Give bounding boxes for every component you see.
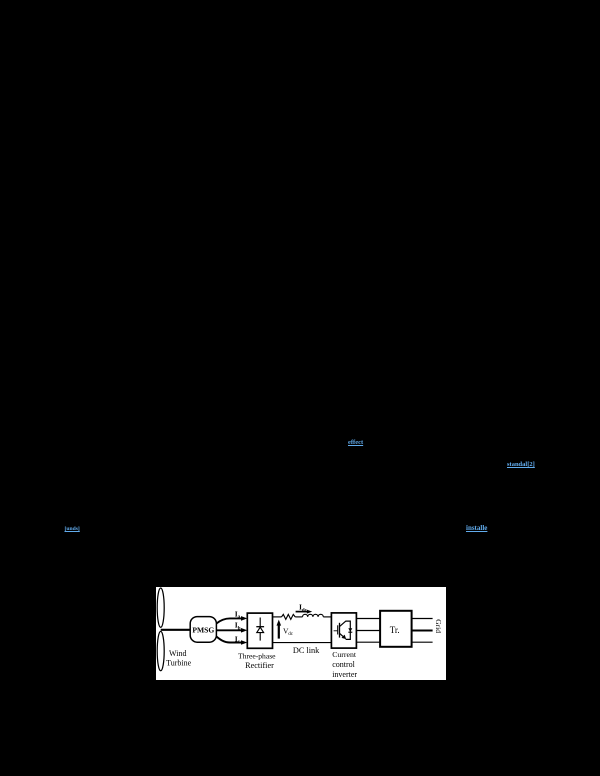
IGBT freewheel diode bar bbox=[348, 631, 352, 633]
svg-text:Turbine: Turbine bbox=[166, 658, 191, 667]
svg-text:control: control bbox=[332, 659, 355, 668]
IGBT body bar bbox=[339, 622, 341, 637]
dc bottom wire bbox=[273, 641, 332, 643]
IGBT emitter arrowhead bbox=[342, 634, 347, 639]
svg-text:a: a bbox=[238, 614, 241, 620]
wire PMSG to rectifier phase a bbox=[216, 618, 241, 623]
wind turbine blade upper bbox=[157, 588, 164, 627]
svg-text:PMSG: PMSG bbox=[192, 625, 214, 634]
arrow phase c bbox=[241, 640, 247, 645]
svg-text:DC link: DC link bbox=[293, 646, 320, 655]
diode vertical lead bbox=[259, 617, 261, 640]
svg-text:dc: dc bbox=[302, 607, 308, 613]
white figure background bbox=[156, 587, 446, 680]
arrowheads bbox=[241, 609, 312, 644]
transformer Tr box bbox=[380, 610, 412, 646]
IGBT gate bar bbox=[337, 625, 339, 634]
grid wire 1 bbox=[412, 617, 433, 619]
svg-text:dc: dc bbox=[288, 632, 294, 637]
svg-text:Tr.: Tr. bbox=[390, 624, 400, 634]
rectifier box bbox=[247, 613, 272, 648]
inverter box bbox=[331, 612, 356, 647]
inductor zigzag bbox=[282, 614, 296, 619]
Vdc arrow bbox=[278, 624, 280, 638]
link text 2 bbox=[507, 461, 535, 468]
svg-text:Rectifier: Rectifier bbox=[245, 661, 274, 670]
IGBT emitter stroke bbox=[340, 633, 345, 637]
arrow Idc head bbox=[307, 609, 312, 613]
wire bbox=[295, 615, 302, 617]
arrow phase a bbox=[241, 616, 247, 621]
IGBT collector stroke bbox=[340, 621, 351, 639]
diode triangle bbox=[257, 627, 264, 632]
svg-text:Three-phase: Three-phase bbox=[238, 651, 276, 660]
wire PMSG to rectifier phase b bbox=[216, 629, 241, 631]
inductor coils bbox=[303, 614, 324, 617]
inverter output wire 2 bbox=[356, 629, 380, 631]
arrow Vdc head bbox=[277, 619, 282, 625]
inverter output wire 1 bbox=[356, 617, 380, 619]
generator PMSG box bbox=[190, 616, 216, 642]
svg-text:Wind: Wind bbox=[169, 648, 186, 657]
dc top wire right bbox=[323, 615, 331, 617]
inverter output wire 3 bbox=[356, 641, 380, 643]
svg-text:b: b bbox=[238, 625, 241, 631]
svg-text:inverter: inverter bbox=[332, 669, 357, 678]
svg-text:Current: Current bbox=[332, 649, 357, 658]
wire PMSG to rectifier phase c bbox=[216, 636, 241, 642]
svg-text:Grid: Grid bbox=[434, 619, 443, 633]
link text 1 bbox=[348, 439, 363, 446]
arrow phase b bbox=[241, 628, 247, 633]
IGBT freewheel diode triangle bbox=[348, 628, 352, 632]
dc top wire bbox=[273, 615, 282, 617]
link text 4 bbox=[65, 526, 80, 532]
diode cathode bar bbox=[256, 625, 264, 627]
Idc arrow line bbox=[296, 610, 308, 612]
IGBT gate lead bbox=[334, 629, 338, 631]
wind turbine blade lower bbox=[157, 631, 164, 670]
link text 3 bbox=[466, 524, 487, 532]
grid wire 2 bbox=[412, 629, 433, 631]
figure: PMSG wind energy conversion system diagram bbox=[156, 587, 446, 680]
grid wire 3 bbox=[412, 641, 433, 643]
shaft wire bbox=[161, 628, 191, 630]
